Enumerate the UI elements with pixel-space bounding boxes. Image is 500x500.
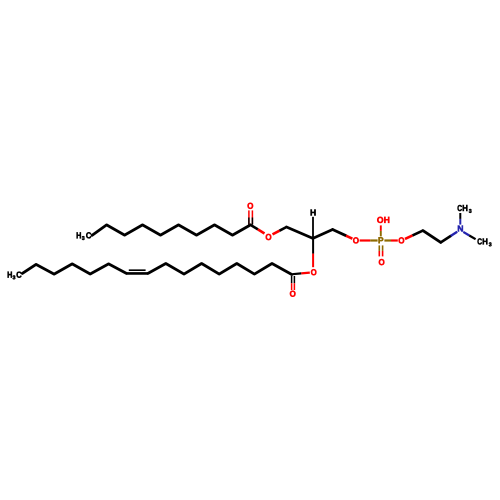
bond glycerol C3 to phosphoester O (O half) xyxy=(346,236,352,239)
subscript 3 of H3C (decanoyl) xyxy=(82,236,85,240)
label H of H3C (palmitoleoyl terminus) xyxy=(8,272,12,278)
label C of H3C (decanoyl) xyxy=(86,232,91,238)
palmitoleoyl chain C10..C16 zigzag bonds xyxy=(22,264,126,274)
hydroxyl H of P-OH xyxy=(384,217,389,223)
decanoyl chain C10..C1 zigzag bonds xyxy=(92,225,250,235)
phosphoester O (glycerol side) xyxy=(353,237,359,243)
phosphoester O (choline side) xyxy=(399,237,405,243)
bond sn-2 ester O to palmitoleoyl C1 xyxy=(301,272,310,275)
bond P-O right (O half) xyxy=(391,239,398,241)
bond glycerol C2-C3 xyxy=(313,230,333,239)
P=O double bond right line xyxy=(382,245,384,251)
bond N-CH3 down (C half) xyxy=(469,236,475,240)
C9=C10 cis double bond main line xyxy=(126,272,148,275)
bond N-CH3 up (C half) xyxy=(459,213,461,219)
bottom methyl C label xyxy=(477,238,481,244)
bond phosphoester O to choline CH2 xyxy=(405,235,413,239)
bond P-OH (O half) xyxy=(380,225,382,230)
decanoyl C=O double bond left line xyxy=(248,210,250,224)
bond sn-1 ester O to glycerol C1 xyxy=(273,231,280,235)
label H of H3C (decanoyl terminus) xyxy=(77,232,81,238)
bond CH2-N (C half) xyxy=(441,236,451,243)
phosphorus P xyxy=(378,237,383,243)
carbonyl O of palmitoleoyl ester xyxy=(290,291,296,297)
top methyl H label xyxy=(463,205,468,211)
bond glycerol C1-C2 xyxy=(287,227,313,238)
bond glycerol C3 to phosphoester O (C half) xyxy=(333,230,346,236)
bond glycerol C2 to sn-2 ester O (O half) xyxy=(312,254,314,268)
bond decanoyl C1 to sn-1 ester O xyxy=(251,225,258,229)
palmitoleoyl C=O double bond left line xyxy=(291,276,293,283)
bond N-CH3 down (N half) xyxy=(463,232,469,236)
bond O-P (P half) xyxy=(370,239,377,241)
H label on glycerol C2 xyxy=(311,210,316,216)
bond CH2-N (N half) xyxy=(451,232,457,236)
decanoyl C=O double bond right line xyxy=(251,210,253,224)
P=O double bond left line xyxy=(378,245,380,251)
bond glycerol C2 to sn-2 ester O (C half) xyxy=(312,238,314,253)
bottom methyl H label xyxy=(483,238,488,244)
bond glycerol C2-H xyxy=(312,217,314,239)
subscript 3 of H3C (palmitoleoyl) xyxy=(13,275,16,279)
subscript 3 of top CH3 xyxy=(469,209,472,213)
hydroxyl O of P-OH xyxy=(377,217,383,223)
bond N-CH3 up (N half) xyxy=(459,219,461,225)
bond O-P (O half) xyxy=(360,239,371,241)
palmitoleoyl chain C1..C9 zigzag bonds xyxy=(148,264,292,275)
sn-1 ester O xyxy=(266,234,272,240)
bond P-OH (P half) xyxy=(380,231,382,237)
C9=C10 cis double bond inner line xyxy=(129,269,146,271)
quaternary N of choline xyxy=(458,226,463,232)
subscript 3 of bottom CH3 xyxy=(489,242,492,246)
sn-2 ester O xyxy=(311,269,316,275)
carbonyl O of decanoyl ester xyxy=(248,203,254,209)
phosphoryl O (P=O) xyxy=(379,259,385,265)
bond P-O right (P half) xyxy=(384,239,391,241)
bond choline CH2-CH2 xyxy=(423,231,441,243)
label C of H3C (palmitoleoyl) xyxy=(17,272,22,278)
top methyl C label xyxy=(457,205,461,211)
palmitoleoyl C=O double bond right line xyxy=(293,276,295,283)
